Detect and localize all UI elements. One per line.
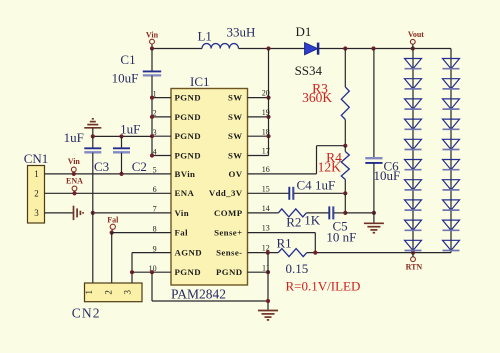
svg-text:17: 17 xyxy=(262,147,270,156)
svg-text:16: 16 xyxy=(262,165,270,174)
wire: ground rail right xyxy=(267,253,269,311)
wire: C3 node to IC Vin pin7 xyxy=(93,212,171,214)
ground at IC PGND xyxy=(258,310,278,312)
svg-text:10uF: 10uF xyxy=(112,71,139,86)
junction pin 20 rail xyxy=(266,96,270,100)
wire: R2 to C5 xyxy=(306,212,329,214)
svg-text:ENA: ENA xyxy=(66,177,83,186)
junction pin 2 rail xyxy=(150,115,154,119)
LED D1-9 xyxy=(405,220,422,230)
junction Fal tap xyxy=(110,231,114,235)
svg-text:1uF: 1uF xyxy=(120,122,140,137)
LED D1-5 xyxy=(405,139,422,149)
wire: pin 19 xyxy=(248,116,269,118)
svg-text:19: 19 xyxy=(262,108,270,117)
svg-text:PGND: PGND xyxy=(175,112,202,122)
junction at SW rail top xyxy=(266,46,270,50)
svg-text:2: 2 xyxy=(34,188,39,198)
svg-text:COMP: COMP xyxy=(214,208,243,218)
svg-text:Vdd_3V: Vdd_3V xyxy=(209,188,243,198)
LED D1-2 xyxy=(405,79,422,89)
svg-text:Vout: Vout xyxy=(408,30,424,39)
resistor R3 xyxy=(344,49,346,88)
wire: LED string 2 column xyxy=(450,49,452,253)
junction pin 18 rail xyxy=(266,134,270,138)
svg-text:10 nF: 10 nF xyxy=(326,230,356,245)
svg-text:RTN: RTN xyxy=(406,263,423,272)
power port RTN xyxy=(411,257,416,262)
svg-text:33uH: 33uH xyxy=(227,25,256,40)
wire: Vin node down to C1 xyxy=(151,49,153,72)
svg-text:3: 3 xyxy=(34,208,39,218)
svg-text:3: 3 xyxy=(123,290,133,295)
LED D1-10 xyxy=(405,240,422,250)
svg-text:10uF: 10uF xyxy=(374,168,401,183)
capacitor C4 xyxy=(288,187,290,200)
wire: C2 bottom to BVin wire xyxy=(121,153,123,174)
svg-text:C3: C3 xyxy=(94,159,109,174)
junction ENA tap xyxy=(72,191,76,195)
power port Vout xyxy=(410,39,415,44)
resistor R4 xyxy=(344,146,346,152)
junction C6/COMP node xyxy=(372,211,376,215)
svg-text:D1: D1 xyxy=(295,24,311,39)
junction R4 bottom / C4 xyxy=(343,191,347,195)
svg-text:1: 1 xyxy=(153,89,157,98)
svg-text:12K: 12K xyxy=(318,159,342,174)
svg-text:R1: R1 xyxy=(277,236,292,251)
inductor L1 xyxy=(202,44,238,49)
junction AGND/PGND cross xyxy=(130,270,134,274)
junction pin 1 rail xyxy=(150,96,154,100)
wire: AGND pin9 to CN2 pin3 xyxy=(132,252,171,254)
wire: pin 18 xyxy=(248,135,269,137)
connector CN2 xyxy=(85,283,143,302)
junction pin11 xyxy=(266,270,270,274)
junction pin 4 rail xyxy=(150,153,154,157)
resistor R1 xyxy=(278,249,307,257)
ground (sideways) at CN1 pin3 xyxy=(73,206,75,220)
svg-text:SW: SW xyxy=(228,150,243,160)
capacitor C6 xyxy=(373,49,375,159)
svg-text:1: 1 xyxy=(84,290,94,295)
wire: OV pin16 to R3/R4 junction xyxy=(248,173,317,175)
LED D2-2 xyxy=(443,79,460,89)
LED D2-6 xyxy=(443,160,460,170)
svg-text:PGND: PGND xyxy=(216,267,243,277)
svg-text:ENA: ENA xyxy=(175,188,195,198)
svg-text:Vin: Vin xyxy=(68,157,81,166)
LED D2-7 xyxy=(443,180,460,190)
LED D2-10 xyxy=(443,240,460,250)
junction R3 branch xyxy=(343,46,347,50)
svg-text:2: 2 xyxy=(104,290,114,295)
junction C3 top xyxy=(91,134,95,138)
wire: pin 17 xyxy=(248,155,269,157)
svg-text:18: 18 xyxy=(262,127,270,136)
junction R3/R4 node xyxy=(343,144,347,148)
svg-text:20: 20 xyxy=(262,89,270,98)
junction Sense-/PGND branch xyxy=(266,251,270,255)
wire: CN1 pin3 to ground xyxy=(45,212,74,214)
LED D2-1 xyxy=(443,59,460,69)
wire: C5 to R4/C5 node xyxy=(334,212,346,214)
svg-text:13: 13 xyxy=(262,224,270,233)
svg-text:0.15: 0.15 xyxy=(286,261,309,276)
LED D1-4 xyxy=(405,119,422,129)
svg-text:OV: OV xyxy=(229,169,243,179)
svg-text:Fal: Fal xyxy=(107,215,119,224)
wire: Vdd_3V pin15 to C4 xyxy=(248,192,290,194)
LED D1-6 xyxy=(405,160,422,170)
diode D1 xyxy=(305,43,318,55)
svg-text:BVin: BVin xyxy=(175,169,196,179)
junction LED string 1 bottom / RTN xyxy=(411,251,415,255)
svg-text:2: 2 xyxy=(153,109,157,118)
wire: pin10 drop to bottom ground run xyxy=(151,272,153,301)
junction C5 node xyxy=(343,211,347,215)
wire: pin 2 xyxy=(152,116,171,118)
svg-text:1uF: 1uF xyxy=(64,130,84,145)
LED D2-3 xyxy=(443,99,460,109)
svg-text:360K: 360K xyxy=(302,90,332,105)
svg-text:PGND: PGND xyxy=(175,93,202,103)
svg-text:Vin: Vin xyxy=(146,31,159,40)
wire: C6 bottom to ground xyxy=(373,163,375,223)
wire: C5 node to C6 lead xyxy=(345,212,374,214)
capacitor C3 xyxy=(92,136,94,148)
ground above C3 xyxy=(84,127,101,129)
junction pin 19 rail xyxy=(266,115,270,119)
wire: Fal pin8 to CN2 pin2 xyxy=(112,232,171,234)
svg-text:IC1: IC1 xyxy=(190,74,210,89)
wire: R1 to LED string bottoms xyxy=(307,252,451,254)
wire: COMP pin14 to R2 xyxy=(248,212,279,214)
svg-text:1: 1 xyxy=(34,169,39,179)
svg-text:PAM2842: PAM2842 xyxy=(171,287,226,302)
wire: C4 to R4 bottom xyxy=(294,192,346,194)
junction Vout tap xyxy=(411,46,415,50)
wire: Vin rail to L1 xyxy=(152,48,202,50)
junction pin10 drop xyxy=(150,270,154,274)
svg-text:4: 4 xyxy=(153,147,157,156)
svg-text:C1: C1 xyxy=(120,52,135,67)
svg-text:C4: C4 xyxy=(297,177,313,192)
LED D2-4 xyxy=(443,119,460,129)
svg-text:C2: C2 xyxy=(132,159,147,174)
svg-text:SS34: SS34 xyxy=(295,63,323,78)
LED D1-8 xyxy=(405,200,422,210)
capacitor C1 xyxy=(143,70,161,72)
resistor R2 xyxy=(278,209,306,217)
svg-text:PGND: PGND xyxy=(175,150,202,160)
svg-text:CN2: CN2 xyxy=(72,306,101,321)
wire: C3/C2 top rail to IC pin3 xyxy=(93,135,152,137)
ground at C6 xyxy=(364,222,384,224)
svg-text:15: 15 xyxy=(262,184,270,193)
svg-text:R=0.1V/ILED: R=0.1V/ILED xyxy=(286,279,361,294)
junction Vin node xyxy=(150,46,154,50)
wire: PGND pin10 xyxy=(132,271,171,273)
svg-text:14: 14 xyxy=(262,204,270,213)
svg-text:Sense+: Sense+ xyxy=(214,228,242,238)
junction C3 bottom lead xyxy=(91,211,95,215)
svg-text:PGND: PGND xyxy=(175,267,202,277)
svg-text:1K: 1K xyxy=(304,212,321,227)
LED D1-7 xyxy=(405,180,422,190)
svg-text:CN1: CN1 xyxy=(24,151,49,166)
svg-text:SW: SW xyxy=(228,131,243,141)
wire: SW rail xyxy=(268,49,270,156)
LED D2-9 xyxy=(443,220,460,230)
svg-text:Sense-: Sense- xyxy=(216,248,242,258)
wire: pin 20 xyxy=(248,97,269,99)
junction Vin left tap xyxy=(72,172,76,176)
wire: PGND pin11 xyxy=(248,271,269,273)
wire: ground stub to PGND wire xyxy=(92,128,94,137)
wire: Sense+ pin13 to R1 right xyxy=(248,232,316,234)
svg-text:PGND: PGND xyxy=(175,131,202,141)
junction C6 branch xyxy=(371,46,375,50)
wire: LED string 1 column xyxy=(412,49,414,253)
wire: Sense- pin12 xyxy=(248,252,279,254)
connector CN1 xyxy=(28,166,45,224)
junction bottom ground node xyxy=(266,299,270,303)
junction C2 top xyxy=(119,134,123,138)
svg-text:R2: R2 xyxy=(286,214,301,229)
svg-text:3: 3 xyxy=(153,128,157,137)
wire: CN1 pin2 to ENA xyxy=(45,192,172,194)
wire: pin 4 xyxy=(152,155,171,157)
IC U1 body PAM2842 xyxy=(171,89,248,286)
capacitor C2 xyxy=(121,136,123,148)
svg-text:Fal: Fal xyxy=(175,228,189,238)
junction R1/Sense+ xyxy=(313,251,317,255)
svg-text:AGND: AGND xyxy=(175,248,203,258)
junction pin 3 rail xyxy=(150,134,154,138)
wire: C1 to PGND rail (pins 1-4) xyxy=(151,76,153,156)
wire: pin 3 xyxy=(152,135,171,137)
wire: D1 cathode to LED string 2 top xyxy=(319,48,451,50)
svg-text:SW: SW xyxy=(228,112,243,122)
LED D1-1 xyxy=(405,59,422,69)
junction C2 bottom xyxy=(119,172,123,176)
svg-text:1uF: 1uF xyxy=(315,177,335,192)
wire: C3 bottom down to CN2 pin1 xyxy=(92,153,94,283)
svg-text:SW: SW xyxy=(228,93,243,103)
svg-text:L1: L1 xyxy=(197,28,211,43)
wire: L1 to D1 anode xyxy=(239,48,305,50)
wire: CN1 pin1 to BVin xyxy=(45,173,172,175)
LED D1-3 xyxy=(405,99,422,109)
svg-text:Vin: Vin xyxy=(175,208,190,218)
wire: R4 bottom to C5 node xyxy=(344,193,346,213)
capacitor C5 xyxy=(328,206,330,219)
wire: pin 1 xyxy=(152,97,171,99)
LED D2-5 xyxy=(443,139,460,149)
LED D2-8 xyxy=(443,200,460,210)
